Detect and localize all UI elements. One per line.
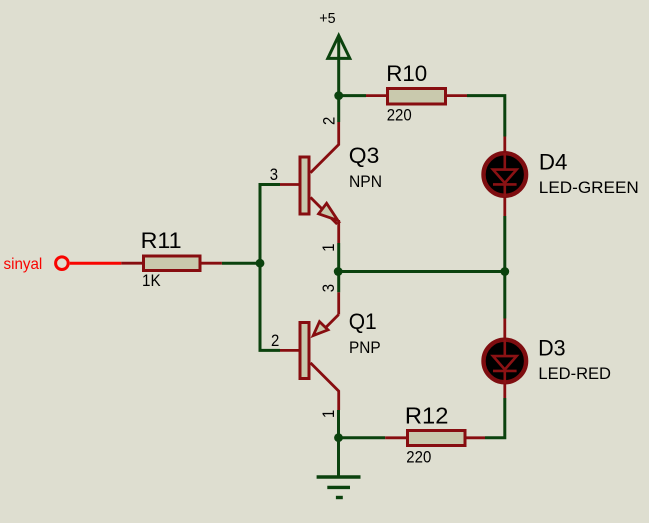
- svg-text:220: 220: [406, 447, 431, 466]
- svg-text:D3: D3: [538, 335, 566, 360]
- svg-text:2: 2: [271, 331, 279, 350]
- svg-text:R10: R10: [386, 61, 427, 86]
- svg-text:3: 3: [319, 284, 338, 292]
- svg-text:Q3: Q3: [349, 143, 380, 168]
- svg-text:1: 1: [319, 243, 338, 251]
- svg-text:sinyal: sinyal: [4, 256, 43, 273]
- svg-text:PNP: PNP: [349, 338, 381, 357]
- svg-text:R11: R11: [141, 228, 182, 253]
- svg-text:1K: 1K: [142, 271, 161, 290]
- svg-text:LED-GREEN: LED-GREEN: [539, 178, 639, 197]
- svg-text:Q1: Q1: [349, 309, 377, 334]
- svg-text:LED-RED: LED-RED: [538, 364, 611, 383]
- svg-text:2: 2: [319, 117, 338, 125]
- svg-text:1: 1: [319, 410, 338, 418]
- svg-text:+5: +5: [319, 10, 335, 27]
- svg-text:R12: R12: [405, 403, 449, 429]
- svg-text:D4: D4: [539, 150, 568, 175]
- svg-text:220: 220: [387, 105, 412, 124]
- svg-text:NPN: NPN: [349, 172, 382, 191]
- svg-text:3: 3: [270, 165, 278, 184]
